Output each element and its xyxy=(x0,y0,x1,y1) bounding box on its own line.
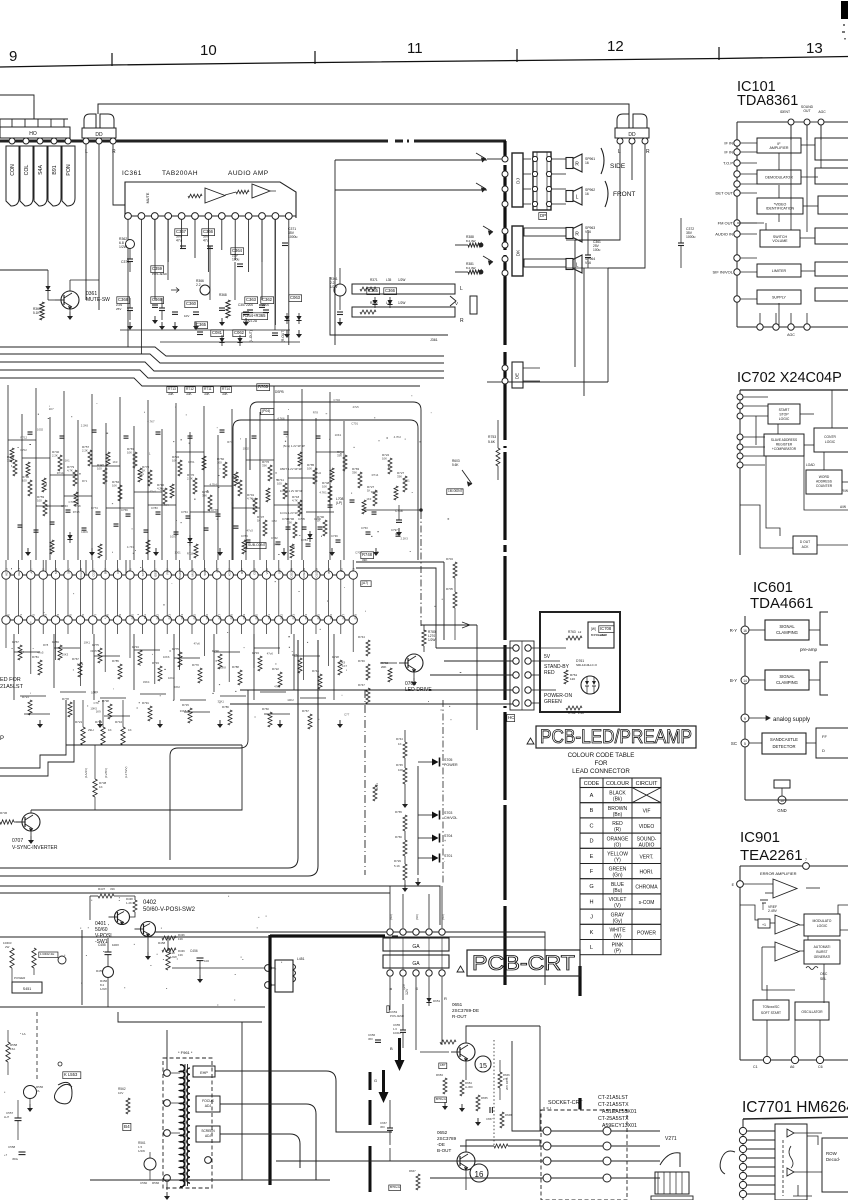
resistor R760 xyxy=(388,668,392,682)
svg-text:L: L xyxy=(460,286,463,292)
svg-text:D651: D651 xyxy=(433,999,441,1003)
svg-text:120: 120 xyxy=(570,677,575,681)
extra audio grounds xyxy=(154,316,156,320)
connector DJ xyxy=(512,153,523,207)
svg-text:S451: S451 xyxy=(23,987,31,991)
svg-text:47u5: 47u5 xyxy=(353,405,360,409)
svg-text:EHP: EHP xyxy=(200,1071,208,1075)
svg-text:B?R+G: B?R+G xyxy=(436,1097,447,1101)
svg-text:DEMODULATOR: DEMODULATOR xyxy=(765,176,793,180)
connector LED bracket xyxy=(510,641,534,710)
svg-text:MUTE-SW: MUTE-SW xyxy=(86,297,110,303)
svg-text:C704: C704 xyxy=(282,517,289,521)
wire B4 to transformer xyxy=(130,1114,132,1124)
svg-text:CONT: CONT xyxy=(91,568,95,577)
resistor R780 xyxy=(422,630,426,646)
svg-text:1B?: 1B? xyxy=(440,1063,446,1067)
svg-text:B/PREAMP: B/PREAMP xyxy=(591,633,607,637)
CRT coil xyxy=(655,1172,689,1194)
svg-text:10K1: 10K1 xyxy=(84,641,91,645)
svg-text:7: 7 xyxy=(805,858,807,862)
speaker SP963 R xyxy=(524,228,566,236)
IC901 pin 7 xyxy=(803,863,810,870)
svg-text:R458: R458 xyxy=(158,941,166,945)
svg-text:R728: R728 xyxy=(332,655,339,659)
svg-text:L35: L35 xyxy=(386,301,392,305)
wire spk return vertical A xyxy=(574,240,576,367)
svg-text:R733: R733 xyxy=(152,661,159,665)
GA through wires xyxy=(389,938,391,969)
svg-text:25V: 25V xyxy=(116,307,121,311)
svg-text:XIN: XIN xyxy=(215,568,219,573)
svg-text:D OUT: D OUT xyxy=(800,540,810,544)
resistor R736 xyxy=(0,820,14,824)
svg-text:4.7K4: 4.7K4 xyxy=(209,482,217,486)
side bracket xyxy=(601,148,604,174)
svg-text:R455: R455 xyxy=(96,969,104,973)
svg-text:+COMPARATOR: +COMPARATOR xyxy=(772,447,797,451)
wire Q651 base xyxy=(416,1051,456,1053)
svg-text:11: 11 xyxy=(407,40,423,57)
svg-text:R: R xyxy=(444,996,447,1001)
svg-text:R655: R655 xyxy=(481,1096,488,1100)
wire spk return 2 xyxy=(455,271,468,273)
switch S451 xyxy=(12,982,42,993)
svg-text:P7: P7 xyxy=(93,614,97,618)
extra caps and stubs dense xyxy=(18,524,23,526)
svg-text:P11: P11 xyxy=(143,614,147,619)
svg-text:10K: 10K xyxy=(127,451,132,455)
svg-text:1000u: 1000u xyxy=(288,235,298,239)
svg-text:10K3: 10K3 xyxy=(62,652,69,656)
svg-text:(Bk): (Bk) xyxy=(613,797,623,803)
extra diodes dense xyxy=(67,535,72,540)
svg-text:R712: R712 xyxy=(20,436,27,440)
triangle marker xyxy=(527,738,534,744)
IC901 modulator logic xyxy=(804,914,840,936)
svg-text:DD: DD xyxy=(95,132,103,138)
IC901 automatic burst generator xyxy=(804,940,840,964)
svg-text:LOAD: LOAD xyxy=(806,463,815,467)
resistor R653 xyxy=(443,1078,447,1094)
svg-text:REGISTER: REGISTER xyxy=(776,443,793,447)
resistor cluster upper xyxy=(58,455,62,471)
svg-text:K L553: K L553 xyxy=(64,1072,78,1077)
IC601 pin 10 GND xyxy=(774,780,790,788)
vertical links right xyxy=(629,1085,631,1128)
svg-text:16: 16 xyxy=(743,629,747,633)
svg-text:(P): (P) xyxy=(614,949,621,955)
wire vert to GA xyxy=(364,875,366,886)
svg-text:R566: R566 xyxy=(152,1181,160,1185)
svg-text:47u6: 47u6 xyxy=(194,642,201,646)
scan texture xyxy=(7,395,462,1005)
svg-text:R: R xyxy=(575,162,579,168)
svg-text:R437: R437 xyxy=(98,887,106,891)
svg-text:SWITCH: SWITCH xyxy=(773,235,788,239)
inductor L451 xyxy=(265,955,305,1000)
svg-text:C357: C357 xyxy=(238,303,246,307)
wire switch top xyxy=(530,651,536,653)
svg-text:12: 12 xyxy=(607,38,624,55)
arrow junction 2 xyxy=(476,183,486,192)
svg-text:POWER: POWER xyxy=(444,763,458,767)
svg-text:FOR: FOR xyxy=(594,760,608,767)
svg-text:P21: P21 xyxy=(267,614,271,620)
svg-text:OSD-R: OSD-R xyxy=(290,567,294,578)
jack body outline xyxy=(334,284,440,330)
svg-text:OSD-G: OSD-G xyxy=(302,567,306,578)
wire y1146 with resistor xyxy=(460,1145,494,1147)
op-amp U1 inside IC361 xyxy=(125,182,296,218)
resistor R667 xyxy=(416,1174,420,1190)
circled 15 xyxy=(475,1056,491,1072)
svg-text:SUPPLY: SUPPLY xyxy=(772,296,787,300)
svg-text:TEA2261: TEA2261 xyxy=(740,847,803,864)
svg-text:VS: VS xyxy=(352,568,356,572)
svg-text:R364+R365: R364+R365 xyxy=(243,313,266,318)
wire Q706 collector xyxy=(423,646,425,652)
svg-text:B4: B4 xyxy=(124,1124,130,1129)
svg-text:VDD: VDD xyxy=(265,567,269,574)
svg-text:CIRCUIT: CIRCUIT xyxy=(636,781,659,787)
svg-text:SOFT START: SOFT START xyxy=(761,1011,781,1015)
IC901 pin 6 xyxy=(737,881,744,888)
resistor R463 xyxy=(10,948,14,968)
resistor R729 xyxy=(403,864,407,880)
svg-text:C: C xyxy=(589,823,593,829)
svg-text:2.2K: 2.2K xyxy=(187,477,193,481)
IC601 block diagram xyxy=(730,612,848,813)
svg-text:CODE: CODE xyxy=(584,781,600,787)
IC701 pin row lower xyxy=(2,619,356,621)
svg-text:FM OUT: FM OUT xyxy=(718,221,734,226)
svg-text:33K: 33K xyxy=(352,471,357,475)
svg-text:ERROR AMPLIFIER: ERROR AMPLIFIER xyxy=(760,871,797,876)
svg-text:1K7: 1K7 xyxy=(49,407,54,411)
svg-text:IC7701 HM6264: IC7701 HM6264 xyxy=(742,1099,848,1116)
svg-text:HS: HS xyxy=(339,568,343,572)
svg-text:P20: P20 xyxy=(255,614,259,620)
connector DD right xyxy=(615,114,649,138)
wire DD tops bus xyxy=(160,104,629,114)
svg-text:(L-OUT): (L-OUT) xyxy=(249,330,253,342)
capacitor C369 xyxy=(159,307,165,309)
main circuit dense area xyxy=(0,402,421,876)
svg-text:SLAVE ADDRESS: SLAVE ADDRESS xyxy=(771,438,797,442)
svg-text:100u: 100u xyxy=(593,248,601,252)
svg-text:SIGNAL: SIGNAL xyxy=(779,674,795,679)
svg-text:1002: 1002 xyxy=(37,428,44,432)
IC901 vref xyxy=(760,899,768,901)
svg-text:C369: C369 xyxy=(152,297,163,302)
svg-text:50/60-V-POSI-SW2: 50/60-V-POSI-SW2 xyxy=(143,907,196,913)
svg-text:LIMITER: LIMITER xyxy=(772,269,787,273)
wire bus audio 3 xyxy=(0,362,444,371)
svg-text:C366: C366 xyxy=(385,288,396,293)
svg-text:R731: R731 xyxy=(375,783,379,790)
label HC xyxy=(507,715,515,722)
svg-text:C784: C784 xyxy=(301,538,308,542)
svg-text:1COL 1.2V 9P 9P: 1COL 1.2V 9P 9P xyxy=(280,511,302,515)
svg-text:P1: P1 xyxy=(19,614,23,618)
svg-text:IF IN: IF IN xyxy=(724,150,733,155)
svg-text:R753: R753 xyxy=(488,435,496,439)
connector DK xyxy=(512,226,523,276)
svg-text:TAB200AH: TAB200AH xyxy=(162,170,198,177)
extra verticals lower dense xyxy=(13,634,15,700)
svg-text:R767: R767 xyxy=(12,640,19,644)
svg-text:ACK: ACK xyxy=(802,545,810,549)
wire LED bus 2 xyxy=(444,660,516,662)
svg-text:B: B xyxy=(590,808,594,814)
wire Q706 base xyxy=(380,662,397,664)
resistor R558 xyxy=(6,1042,10,1062)
svg-text:2.2K6: 2.2K6 xyxy=(81,423,89,427)
svg-text:R: R xyxy=(646,149,650,155)
svg-text:1K: 1K xyxy=(257,519,261,523)
svg-text:R709: R709 xyxy=(95,720,103,724)
ruler tick 9-10 xyxy=(111,53,113,66)
transistor Q402 xyxy=(115,910,130,925)
svg-text:KEY2: KEY2 xyxy=(5,568,9,576)
resistor R458 xyxy=(166,948,170,970)
capacitors C704 C705 xyxy=(286,526,291,528)
wire vertical 242 xyxy=(241,1022,243,1180)
svg-text:STOP: STOP xyxy=(779,413,789,417)
node small arrows xyxy=(171,288,179,293)
extra audio caps xyxy=(152,304,158,306)
wire DD right R down xyxy=(608,144,645,268)
bus wire main xyxy=(2,140,388,143)
bus CRT thick dashed vertical xyxy=(503,141,506,160)
svg-text:RED: RED xyxy=(544,670,555,676)
IC901 modulator op-amp xyxy=(775,915,799,934)
svg-text:IC601: IC601 xyxy=(753,579,793,596)
resistor R731 xyxy=(373,785,377,801)
svg-text:V16: V16 xyxy=(585,261,591,265)
svg-text:DE: DE xyxy=(515,373,520,379)
transformer F961 primary coil xyxy=(180,1065,185,1187)
svg-text:2W: 2W xyxy=(5,945,10,949)
svg-text:33K: 33K xyxy=(287,521,292,525)
svg-text:R786: R786 xyxy=(222,705,229,709)
ground Q707 xyxy=(30,831,32,836)
svg-text:LED-DRIVE: LED-DRIVE xyxy=(405,687,432,693)
svg-text:14: 14 xyxy=(743,679,747,683)
svg-text:P: P xyxy=(0,736,4,742)
speaker SP964 L xyxy=(524,259,566,267)
svg-text:L35: L35 xyxy=(386,278,392,282)
connector GA pins bottom xyxy=(387,970,393,976)
svg-text:P15: P15 xyxy=(193,614,197,620)
svg-text:SEL: SEL xyxy=(820,977,827,981)
svg-text:C753: C753 xyxy=(361,526,368,530)
svg-text:+1: +1 xyxy=(762,923,766,927)
colour code table xyxy=(580,778,661,955)
preamp box xyxy=(588,622,614,648)
svg-text:R667: R667 xyxy=(409,1169,416,1173)
svg-text:IC702 X24C04P: IC702 X24C04P xyxy=(737,370,842,386)
svg-text:C367: C367 xyxy=(176,229,187,234)
svg-text:1007: 1007 xyxy=(252,497,259,501)
svg-text:B-OUT: B-OUT xyxy=(437,1148,451,1153)
IC601 sandcastle detector xyxy=(762,733,806,754)
triangle marker 2 xyxy=(457,966,464,972)
svg-text:2.2: 2.2 xyxy=(196,283,201,287)
svg-text:D: D xyxy=(589,839,593,845)
svg-text:R371: R371 xyxy=(370,278,378,282)
svg-text:21A5LST: 21A5LST xyxy=(0,684,24,690)
svg-text:AFT: AFT xyxy=(29,568,33,574)
svg-text:(Gn): (Gn) xyxy=(613,873,623,879)
capacitor C667 xyxy=(387,1127,393,1129)
speaker SP961 R side xyxy=(566,158,573,169)
svg-text:47u: 47u xyxy=(203,239,209,243)
board border right dash xyxy=(578,966,581,996)
svg-text:POS.JESD: POS.JESD xyxy=(390,1014,404,1018)
svg-text:IF IN: IF IN xyxy=(724,141,733,146)
resistor R362 xyxy=(126,240,135,249)
svg-text:R781: R781 xyxy=(32,655,39,659)
connector GA pins top xyxy=(387,929,393,935)
svg-text:IC901: IC901 xyxy=(740,829,780,846)
svg-text:C1: C1 xyxy=(753,1065,758,1069)
svg-text:100: 100 xyxy=(204,959,209,963)
svg-text:12V: 12V xyxy=(405,988,409,995)
svg-text:2SC3789-DE: 2SC3789-DE xyxy=(452,1008,479,1013)
wire bus audio 2 xyxy=(0,354,444,363)
ground Q706 xyxy=(413,672,415,678)
IC601 pin 5 SC xyxy=(741,739,749,747)
svg-text:SCL: SCL xyxy=(67,568,71,574)
wire Q707 collector xyxy=(30,810,32,813)
wires down to GA xyxy=(389,886,391,928)
svg-text:1K3: 1K3 xyxy=(366,497,371,501)
wire spk return 1 xyxy=(455,244,468,246)
svg-text:R785: R785 xyxy=(112,659,119,663)
svg-text:R766: R766 xyxy=(395,835,402,839)
svg-text:47u4: 47u4 xyxy=(149,490,156,494)
svg-text:R713: R713 xyxy=(168,387,176,391)
wire Q651 collector right xyxy=(466,1030,530,1068)
ground Q402 xyxy=(147,952,149,956)
svg-text:C705: C705 xyxy=(298,517,305,521)
svg-text:FOCUS: FOCUS xyxy=(202,1099,215,1103)
svg-text:OSD-B: OSD-B xyxy=(315,568,319,578)
svg-text:100: 100 xyxy=(37,499,42,503)
sub-cont box xyxy=(247,543,266,549)
switch S703 CHVOL xyxy=(432,812,439,819)
svg-text:FF: FF xyxy=(822,734,827,739)
svg-text:P27: P27 xyxy=(341,614,345,620)
resistor R704 column xyxy=(453,562,457,578)
wire LED bus 4 xyxy=(240,689,516,691)
svg-text:P6: P6 xyxy=(81,614,85,618)
svg-text:LOGIC: LOGIC xyxy=(817,924,828,928)
svg-text:SIDE: SIDE xyxy=(610,163,626,170)
svg-text:LOGIC: LOGIC xyxy=(779,417,790,421)
svg-text:GENERATI: GENERATI xyxy=(814,955,831,959)
svg-text:4.7K6: 4.7K6 xyxy=(277,417,285,421)
svg-text:START: START xyxy=(779,408,790,412)
svg-text:(Y): (Y) xyxy=(614,858,621,864)
svg-text:C783: C783 xyxy=(151,506,158,510)
svg-text:AUDIO AMP: AUDIO AMP xyxy=(228,170,269,177)
degauss loop xyxy=(54,1082,72,1104)
svg-text:R73: R73 xyxy=(275,542,281,546)
transistor Q705 xyxy=(462,470,472,486)
wire left col dash xyxy=(36,1012,38,1080)
svg-text:C77: C77 xyxy=(344,712,350,716)
svg-text:R747: R747 xyxy=(358,683,365,687)
svg-text:33K1: 33K1 xyxy=(217,700,224,704)
svg-text:C706: C706 xyxy=(314,517,321,521)
svg-text:P13: P13 xyxy=(168,614,172,620)
extra audio cluster wires xyxy=(154,219,156,300)
svg-text:C701: C701 xyxy=(188,460,195,464)
svg-text:MODULATO: MODULATO xyxy=(813,919,832,923)
svg-text:L: L xyxy=(590,945,593,951)
svg-text:10K1: 10K1 xyxy=(335,433,342,437)
svg-text:A6: A6 xyxy=(790,1065,794,1069)
capacitor C456 xyxy=(197,957,204,959)
svg-text:10K: 10K xyxy=(398,768,403,772)
transformer core xyxy=(184,1064,186,1186)
capacitor C357 xyxy=(243,311,249,313)
svg-text:BURST: BURST xyxy=(816,950,827,954)
svg-text:R734: R734 xyxy=(132,645,139,649)
svg-text:S4A: S4A xyxy=(38,165,44,175)
ruler scale line xyxy=(0,57,848,68)
svg-text:R714: R714 xyxy=(222,387,230,391)
board PCB-LED outline xyxy=(540,612,620,712)
wire spk return vertical B xyxy=(607,268,609,382)
resistor R666 xyxy=(498,1072,502,1088)
svg-text:C366: C366 xyxy=(203,229,214,234)
wire link top right xyxy=(290,98,634,114)
svg-text:AUDIO: AUDIO xyxy=(639,842,655,848)
svg-text:AUDIO IN: AUDIO IN xyxy=(715,232,733,237)
svg-text:SC: SC xyxy=(731,741,737,746)
resistor R436 xyxy=(162,936,176,940)
svg-text:SRL1210H-C.O: SRL1210H-C.O xyxy=(576,663,598,667)
wires mid verticals xyxy=(596,718,598,730)
svg-text:CT-21A5STX: CT-21A5STX xyxy=(598,1102,629,1108)
svg-text:B91: B91 xyxy=(52,165,58,174)
capacitor C657 xyxy=(489,1107,491,1113)
svg-text:SIGNAL: SIGNAL xyxy=(779,624,795,629)
svg-text:(Gy): (Gy) xyxy=(613,918,623,924)
svg-text:IC708: IC708 xyxy=(600,626,612,631)
svg-text:20K: 20K xyxy=(381,665,386,669)
svg-text:RST: RST xyxy=(240,568,244,574)
svg-text:G: G xyxy=(374,1078,377,1083)
socket pin wires xyxy=(551,1130,603,1132)
svg-text:H: H xyxy=(589,899,593,905)
socket right wires xyxy=(611,1130,660,1132)
svg-text:10K7: 10K7 xyxy=(91,691,98,695)
svg-text:K: K xyxy=(590,930,594,936)
svg-text:100V: 100V xyxy=(112,943,119,947)
wire long vertical A xyxy=(239,748,241,868)
svg-text:R791: R791 xyxy=(142,701,149,705)
svg-text:GREEN: GREEN xyxy=(544,699,562,705)
connector DD left pins xyxy=(83,138,89,144)
svg-text:R788: R788 xyxy=(232,665,239,669)
wire Q707 long right xyxy=(31,745,242,810)
svg-text:10K: 10K xyxy=(112,484,117,488)
